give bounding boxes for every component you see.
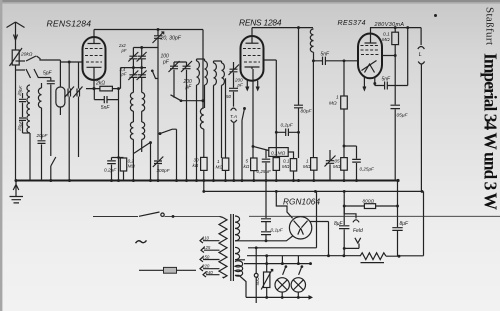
svg-text:1: 1 — [336, 95, 339, 101]
svg-text:pF: pF — [121, 48, 127, 53]
svg-text:1: 1 — [306, 159, 309, 164]
svg-text:pF: pF — [121, 72, 127, 77]
svg-text:MΩ: MΩ — [303, 164, 311, 169]
svg-text:MΩ: MΩ — [128, 164, 136, 169]
svg-text:5nF: 5nF — [382, 77, 392, 83]
svg-text:RES374: RES374 — [338, 20, 366, 27]
svg-text:280V30mA: 280V30mA — [374, 22, 405, 28]
svg-text:pF: pF — [185, 85, 193, 91]
svg-text:110: 110 — [202, 236, 210, 241]
svg-text:MΩ: MΩ — [333, 164, 341, 169]
svg-text:220: 220 — [201, 264, 210, 269]
svg-text:5nF: 5nF — [101, 105, 111, 111]
svg-text:MΩ: MΩ — [382, 37, 390, 43]
svg-text:RENS1284: RENS1284 — [47, 19, 92, 29]
svg-text:2kΩ: 2kΩ — [95, 80, 105, 86]
svg-text:Staßfurt: Staßfurt — [484, 7, 496, 45]
svg-text:5nF: 5nF — [321, 51, 331, 57]
svg-text:80pF: 80pF — [301, 109, 313, 115]
svg-text:Imperial 34 W und 3 W: Imperial 34 W und 3 W — [481, 53, 500, 211]
svg-text:RGN1064: RGN1064 — [283, 198, 320, 207]
svg-text:05μF: 05μF — [397, 113, 409, 119]
svg-text:50Ω: 50Ω — [255, 277, 260, 286]
svg-text:5pF: 5pF — [43, 71, 53, 77]
svg-text:05: 05 — [335, 159, 341, 164]
svg-text:RENS 1284: RENS 1284 — [239, 18, 282, 28]
svg-text:L: L — [419, 52, 422, 58]
svg-text:0,1: 0,1 — [283, 159, 290, 164]
svg-text:50: 50 — [226, 94, 232, 99]
svg-text:20pF: 20pF — [36, 133, 49, 139]
svg-text:0,1MΩ: 0,1MΩ — [271, 150, 286, 156]
svg-text:MΩ: MΩ — [329, 101, 337, 107]
svg-text:5: 5 — [246, 159, 249, 164]
svg-text:0,1μF: 0,1μF — [271, 228, 284, 234]
svg-text:8μF: 8μF — [334, 221, 344, 227]
svg-text:kΩ: kΩ — [193, 163, 199, 168]
svg-text:8μF: 8μF — [400, 221, 410, 227]
svg-text:T.A: T.A — [230, 114, 237, 120]
svg-text:800Ω: 800Ω — [363, 198, 375, 204]
svg-text:0,25μF: 0,25μF — [257, 169, 272, 174]
svg-text:20kΩ: 20kΩ — [20, 52, 33, 58]
svg-text:125: 125 — [203, 245, 211, 250]
svg-text:0,2μF: 0,2μF — [281, 123, 294, 129]
svg-text:1: 1 — [217, 159, 220, 164]
svg-text:0,2μF: 0,2μF — [104, 168, 117, 174]
svg-text:0,1: 0,1 — [383, 32, 390, 38]
svg-text:MΩ: MΩ — [282, 164, 290, 169]
svg-text:Feld: Feld — [353, 228, 363, 234]
svg-text:240: 240 — [205, 270, 214, 275]
svg-text:30: 30 — [194, 158, 200, 163]
svg-text:300pF: 300pF — [157, 168, 171, 173]
svg-text:pF: pF — [162, 60, 170, 66]
svg-text:kΩ: kΩ — [244, 164, 250, 169]
svg-text:20, 30pF: 20, 30pF — [160, 35, 182, 41]
svg-text:MΩ: MΩ — [216, 165, 224, 170]
svg-text:0,25μF: 0,25μF — [360, 167, 375, 172]
svg-text:150: 150 — [202, 255, 210, 260]
